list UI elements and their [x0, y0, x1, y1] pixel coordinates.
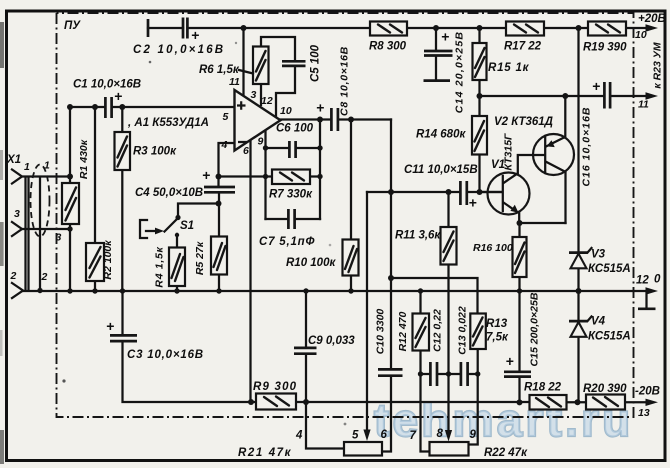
- svg-text:-20В: -20В: [635, 386, 660, 398]
- svg-text:+: +: [441, 29, 449, 45]
- svg-text:+20В: +20В: [638, 13, 666, 25]
- svg-text:С7 5,1пФ: С7 5,1пФ: [259, 236, 315, 248]
- svg-text:+: +: [106, 318, 114, 334]
- svg-text:КС515А: КС515А: [588, 331, 631, 343]
- svg-text:+: +: [592, 78, 600, 94]
- svg-text:6: 6: [381, 429, 388, 441]
- svg-text:R13: R13: [486, 318, 508, 330]
- svg-text:+: +: [316, 100, 324, 116]
- svg-text:V4: V4: [591, 316, 606, 328]
- svg-text:R19 390: R19 390: [583, 42, 627, 54]
- svg-text:S1: S1: [180, 220, 194, 232]
- svg-text:V2 КТ361Д: V2 КТ361Д: [494, 116, 553, 128]
- svg-text:С9 0,033: С9 0,033: [308, 335, 355, 347]
- svg-text:5: 5: [223, 111, 229, 123]
- svg-text:9: 9: [258, 136, 264, 148]
- svg-text:R8 300: R8 300: [369, 41, 407, 53]
- svg-text:, А1 К553УД1А: , А1 К553УД1А: [127, 117, 209, 129]
- svg-text:ПУ: ПУ: [64, 20, 81, 32]
- svg-text:R17 22: R17 22: [504, 41, 542, 53]
- svg-text:5: 5: [352, 430, 359, 442]
- svg-text:С15 200,0×25В: С15 200,0×25В: [528, 292, 540, 366]
- svg-text:R9 300: R9 300: [253, 381, 297, 393]
- svg-text:к R23 УМ: к R23 УМ: [651, 42, 663, 89]
- svg-text:3: 3: [14, 208, 20, 220]
- svg-text:R12 470: R12 470: [397, 311, 409, 351]
- svg-text:С3 10,0×16В: С3 10,0×16В: [127, 349, 204, 361]
- svg-text:R21 47к: R21 47к: [238, 447, 292, 459]
- svg-text:R6 1,5к: R6 1,5к: [199, 64, 240, 76]
- svg-text:КС515А: КС515А: [588, 263, 631, 275]
- svg-text:С10 3300: С10 3300: [374, 309, 386, 355]
- svg-text:R3 100к: R3 100к: [133, 146, 177, 158]
- svg-text:R15 1к: R15 1к: [488, 62, 530, 74]
- svg-text:12: 12: [261, 95, 273, 107]
- svg-text:С16 10,0×16В: С16 10,0×16В: [580, 106, 592, 186]
- svg-text:10: 10: [635, 29, 647, 41]
- svg-text:3: 3: [251, 89, 257, 101]
- svg-text:V3: V3: [591, 249, 606, 261]
- svg-text:С8 10,0×16В: С8 10,0×16В: [338, 46, 350, 116]
- svg-text:R14 680к: R14 680к: [416, 129, 466, 141]
- svg-text:2: 2: [10, 270, 17, 282]
- svg-text:1: 1: [44, 160, 50, 172]
- svg-text:X1: X1: [6, 154, 21, 166]
- svg-text:R7 330к: R7 330к: [269, 189, 313, 201]
- svg-text:R5 27к: R5 27к: [194, 241, 206, 275]
- svg-text:11: 11: [638, 99, 649, 111]
- svg-text:10: 10: [280, 105, 292, 117]
- svg-text:R1 430к: R1 430к: [78, 139, 90, 179]
- svg-text:4: 4: [221, 139, 228, 151]
- svg-text:0: 0: [654, 274, 661, 286]
- svg-text:С13 0,022: С13 0,022: [456, 306, 468, 355]
- svg-text:R22 47к: R22 47к: [484, 447, 528, 459]
- svg-text:6: 6: [243, 145, 249, 157]
- svg-text:+: +: [191, 27, 199, 43]
- svg-text:КТ315Г: КТ315Г: [502, 133, 514, 171]
- svg-text:8: 8: [437, 428, 444, 440]
- svg-text:R4 1,5к: R4 1,5к: [153, 246, 165, 287]
- svg-text:+: +: [469, 195, 477, 211]
- svg-text:R20 390: R20 390: [583, 383, 627, 395]
- svg-text:13: 13: [638, 407, 650, 419]
- svg-text:1: 1: [24, 161, 30, 173]
- svg-text:R11 3,6к: R11 3,6к: [395, 230, 441, 242]
- svg-text:11: 11: [229, 76, 240, 88]
- svg-text:9: 9: [470, 429, 477, 441]
- svg-text:2: 2: [41, 271, 48, 283]
- svg-text:R2 100к: R2 100к: [102, 240, 114, 280]
- svg-text:С11 10,0×15В: С11 10,0×15В: [404, 164, 478, 176]
- svg-text:С1 10,0×16В: С1 10,0×16В: [73, 79, 141, 91]
- svg-text:+: +: [202, 167, 210, 183]
- svg-text:С2 10,0×16В: С2 10,0×16В: [133, 44, 225, 56]
- svg-text:+: +: [114, 88, 122, 104]
- svg-text:R16 100: R16 100: [473, 242, 513, 254]
- svg-text:7: 7: [410, 430, 417, 442]
- svg-text:R10 100к: R10 100к: [286, 257, 336, 269]
- svg-text:С6 100: С6 100: [276, 123, 314, 135]
- svg-text:С12 0,22: С12 0,22: [431, 309, 443, 352]
- svg-text:+: +: [506, 353, 514, 369]
- svg-text:С5 100: С5 100: [310, 44, 322, 82]
- svg-text:12: 12: [636, 275, 649, 287]
- svg-text:4: 4: [295, 430, 303, 442]
- svg-text:R18 22: R18 22: [524, 382, 562, 394]
- svg-text:7,5к: 7,5к: [486, 332, 509, 344]
- svg-text:С4 50,0×10В: С4 50,0×10В: [135, 187, 203, 199]
- svg-text:С14 20,0×25В: С14 20,0×25В: [453, 31, 465, 113]
